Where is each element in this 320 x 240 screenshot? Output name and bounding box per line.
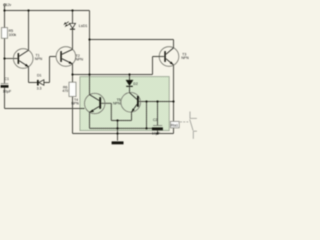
svg-text:100k: 100k <box>9 33 17 37</box>
svg-text:470: 470 <box>62 89 68 93</box>
svg-text:C2: C2 <box>153 118 158 122</box>
svg-text:10µF: 10µF <box>3 89 12 93</box>
svg-text:10µF: 10µF <box>152 131 161 135</box>
svg-text:D2: D2 <box>133 82 138 86</box>
svg-text:D1: D1 <box>37 73 42 77</box>
svg-text:12v: 12v <box>6 3 12 7</box>
svg-text:C1: C1 <box>5 77 10 81</box>
svg-text:NPN: NPN <box>113 102 121 106</box>
svg-text:Rla1: Rla1 <box>171 124 178 128</box>
svg-text:NPN: NPN <box>35 57 43 61</box>
svg-text:LsD1: LsD1 <box>79 24 88 28</box>
svg-text:NPN: NPN <box>76 58 84 62</box>
svg-text:NPN: NPN <box>71 102 79 106</box>
svg-text:NPN: NPN <box>181 56 189 60</box>
svg-text:3.3: 3.3 <box>37 86 42 90</box>
